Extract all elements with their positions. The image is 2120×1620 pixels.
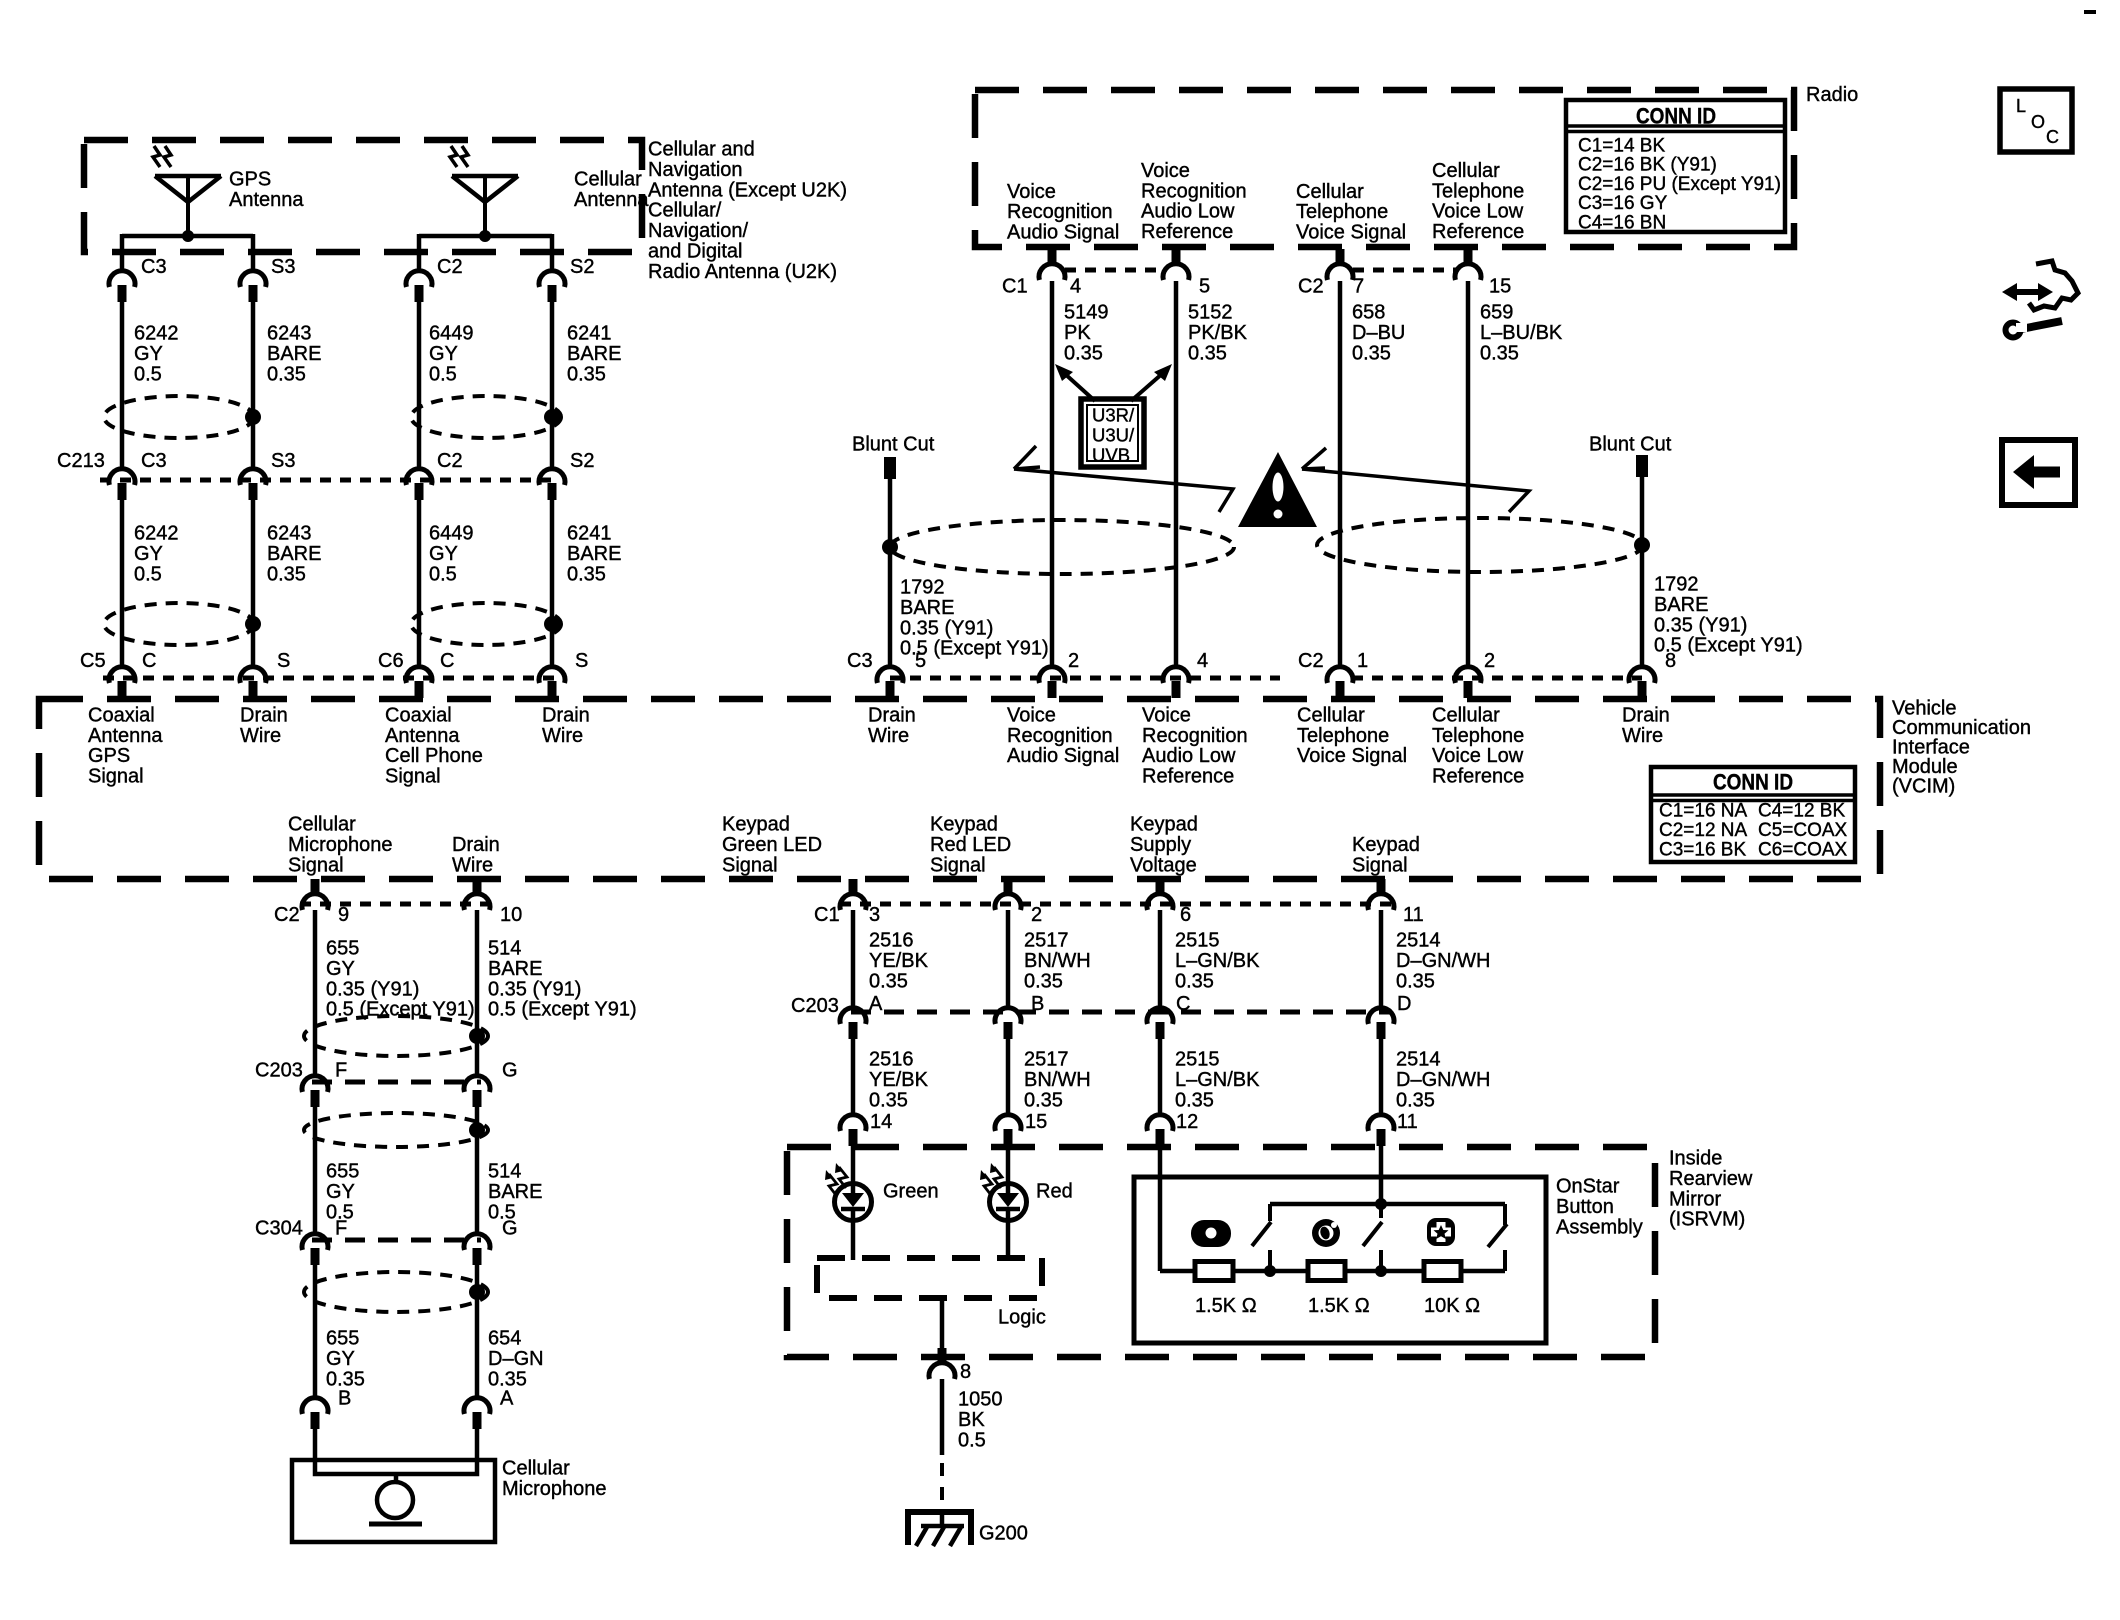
svg-text:BARE: BARE [488,958,542,980]
svg-text:Red LED: Red LED [930,834,1011,856]
VCIM pin C2-1 [1298,650,1368,698]
svg-text:0.35: 0.35 [1024,970,1063,992]
radio pin C2-7 [1298,249,1364,298]
svg-text:S2: S2 [570,256,594,278]
label Cellular Telephone Voice Signal (VCIM) [1297,705,1407,768]
junction dot resistor bus 2 [1375,1265,1387,1277]
connector pin G (C203) [464,1060,518,1108]
svg-text:C203: C203 [255,1060,303,1082]
shield ellipse mic 3 [304,1272,488,1312]
svg-text:7: 7 [1353,276,1364,298]
wire mic A lead [475,1428,480,1462]
junction dot signal bus [1375,1198,1387,1210]
svg-text:Cellular: Cellular [502,1458,570,1480]
button icon emergency cross [1427,1218,1455,1246]
label Drain Wire (C5) [240,705,288,747]
svg-text:0.35: 0.35 [1188,342,1227,364]
svg-text:C2: C2 [1298,276,1324,298]
svg-text:C6: C6 [378,650,404,672]
svg-text:Cellular: Cellular [1297,705,1365,727]
svg-text:1792: 1792 [1654,574,1699,596]
svg-text:L–GN/BK: L–GN/BK [1175,1069,1260,1091]
label C304 [255,1218,303,1240]
junction dot mic shield 1 [469,1028,485,1044]
wire 2517 BN/WH segment 1 [1006,910,1011,1010]
svg-text:GY: GY [326,1348,355,1370]
wire 6242 GY segment 1 [120,301,125,471]
svg-text:5149: 5149 [1064,302,1109,324]
wire green LED to logic [851,1221,856,1260]
wire 1792 BARE (left) [888,479,893,668]
svg-text:D–GN/WH: D–GN/WH [1396,950,1490,972]
wire 6242 GY segment 2 [120,499,125,668]
wire 658 D-BU [1338,281,1343,668]
label Keypad Supply Voltage [1130,814,1198,877]
connector pin S2 (C213) [539,450,594,500]
connector pin D (C203) [1368,993,1411,1039]
label Keypad Signal [1352,834,1420,876]
svg-text:Telephone: Telephone [1432,180,1524,202]
svg-text:1.5K Ω: 1.5K Ω [1195,1295,1257,1317]
svg-text:0.35 (Y91): 0.35 (Y91) [488,978,581,1000]
resistor R1 1.5K [1195,1262,1233,1281]
svg-text:GY: GY [134,543,163,565]
svg-text:0.35: 0.35 [267,563,306,585]
svg-text:A: A [500,1388,514,1410]
svg-text:L–GN/BK: L–GN/BK [1175,950,1260,972]
svg-text:514: 514 [488,1161,521,1183]
svg-text:L: L [2016,96,2026,116]
svg-text:Wire: Wire [452,854,493,876]
svg-text:655: 655 [326,1328,359,1350]
wire label 2517 BN/WH (lower) [1024,1049,1091,1112]
wire label 514 BARE 0.5 [488,1161,542,1224]
svg-text:Drain: Drain [240,705,288,727]
svg-text:G: G [502,1060,518,1082]
svg-text:D–BU: D–BU [1352,322,1405,344]
junction dot resistor bus 1 [1264,1265,1276,1277]
VCIM pin 4 [1163,650,1208,698]
svg-text:BK: BK [958,1409,985,1431]
svg-text:Button: Button [1556,1196,1614,1218]
wire keypad signal into assembly [1379,1144,1384,1204]
svg-text:0.35: 0.35 [1175,970,1214,992]
label Cellular Telephone Voice Low Reference (VCIM) [1432,705,1524,788]
junction dot shield-drain S2 upper [544,409,560,425]
svg-text:S3: S3 [271,450,295,472]
svg-text:15: 15 [1489,276,1511,298]
svg-text:Voice Low: Voice Low [1432,745,1524,767]
junction dot blunt left [882,539,898,555]
label C6 [378,650,404,672]
svg-text:Recognition: Recognition [1007,201,1113,223]
svg-text:6243: 6243 [267,323,312,345]
wire label 2515 L-GN/BK (upper) [1175,930,1260,993]
OnStar Button Assembly box [1134,1177,1546,1343]
svg-text:514: 514 [488,938,521,960]
svg-text:Voice: Voice [1142,705,1191,727]
label Logic [998,1307,1046,1329]
svg-text:0.35 (Y91): 0.35 (Y91) [326,978,419,1000]
label Green [883,1181,939,1203]
svg-text:4: 4 [1197,650,1208,672]
svg-text:Recognition: Recognition [1007,725,1113,747]
wire 2514 D-GN/WH segment 2 [1379,1038,1384,1117]
svg-text:Wire: Wire [868,725,909,747]
wire label 2515 L-GN/BK (lower) [1175,1049,1260,1112]
svg-text:BN/WH: BN/WH [1024,950,1091,972]
svg-text:Navigation/: Navigation/ [648,220,749,242]
svg-text:C1: C1 [1002,276,1028,298]
svg-text:GY: GY [326,1181,355,1203]
Logic dashed box [817,1258,1042,1298]
label Cellular Telephone Voice Signal (radio) [1296,181,1406,244]
label Cellular Antenna [574,169,649,211]
wire 6449 GY segment 1 [417,301,422,471]
svg-text:6242: 6242 [134,323,179,345]
ISRVM pin 14 [840,1111,892,1146]
wire label 6243 BARE 0.35 (upper) [267,323,321,386]
svg-text:GY: GY [134,343,163,365]
svg-text:654: 654 [488,1328,521,1350]
label Coaxial Antenna GPS Signal [88,705,163,788]
svg-text:U3U/: U3U/ [1092,424,1135,445]
junction dot mic shield 2 [469,1122,485,1138]
wire label 659 L-BU/BK 0.35 [1480,302,1563,365]
label OnStar Button Assembly [1556,1176,1643,1239]
VCIM pin C3-5 drain [847,650,926,698]
svg-text:659: 659 [1480,302,1513,324]
svg-text:0.35: 0.35 [1480,342,1519,364]
svg-text:Blunt Cut: Blunt Cut [852,434,935,456]
label Voice Recognition Audio Signal (VCIM) [1007,705,1119,768]
shield ellipse radio right pair [1317,518,1643,572]
VCIM CONN ID table [1651,767,1855,862]
svg-text:Drain: Drain [868,705,916,727]
svg-text:Keypad: Keypad [930,814,998,836]
RPO arrow to wire 5152 [1131,364,1172,401]
svg-text:14: 14 [870,1111,892,1133]
svg-text:L–BU/BK: L–BU/BK [1480,322,1563,344]
svg-text:0.5 (Except Y91): 0.5 (Except Y91) [488,999,637,1021]
svg-text:Audio Signal: Audio Signal [1007,222,1119,244]
wire label 2516 YE/BK (upper) [869,930,929,993]
button icon phone [1191,1220,1231,1247]
ISRVM pin 11 [1368,1111,1418,1146]
VCIM pin 2 red [995,879,1042,926]
pointer zigzag left [1014,446,1233,512]
svg-text:0.35: 0.35 [1396,1089,1435,1111]
wire label 514 BARE (Y91) [488,938,637,1021]
svg-text:Antenna (Except U2K): Antenna (Except U2K) [648,179,847,201]
connector C203 dashed line (mic) [312,1080,481,1085]
svg-text:1050: 1050 [958,1389,1003,1411]
svg-text:C2: C2 [1298,650,1324,672]
wire 5149 PK [1050,281,1055,668]
svg-text:GY: GY [429,543,458,565]
svg-text:Cellular: Cellular [574,169,642,191]
VCIM bottom connector C1 dotted line (keypad) [840,902,1392,907]
wire label 2514 D-GN/WH (lower) [1396,1049,1490,1112]
connector pin B (C203) [995,993,1044,1039]
label C5 [80,650,106,672]
svg-text:GPS: GPS [229,169,271,191]
svg-text:YE/BK: YE/BK [869,1069,929,1091]
svg-text:C5: C5 [80,650,106,672]
label antenna assembly name [648,139,847,283]
svg-text:F: F [335,1060,347,1082]
svg-text:Telephone: Telephone [1432,725,1524,747]
svg-text:D: D [1397,993,1411,1015]
Cellular Microphone box [292,1460,495,1542]
svg-text:Audio Low: Audio Low [1142,745,1236,767]
svg-text:C1: C1 [814,904,840,926]
svg-text:BARE: BARE [267,543,321,565]
VCIM pin 2 (voice low) [1455,650,1495,698]
label Cellular Telephone Voice Low Reference (radio) [1432,160,1524,243]
svg-text:A: A [869,993,883,1015]
wire 655 GY segment 3 [313,1264,318,1400]
svg-text:Inside: Inside [1669,1148,1722,1170]
svg-text:Antenna: Antenna [229,189,304,211]
shield ellipse GPS pair upper [104,396,254,438]
svg-text:0.5: 0.5 [134,563,162,585]
VCIM bottom connector C2 dotted line (mic) [300,902,490,907]
junction dot shield-drain S3 upper [245,409,261,425]
svg-text:GY: GY [429,343,458,365]
svg-text:Drain: Drain [1622,705,1670,727]
svg-text:Signal: Signal [722,854,778,876]
LED red indicator [980,1163,1027,1221]
svg-text:15: 15 [1025,1111,1047,1133]
ISRVM pin 12 [1147,1111,1198,1146]
svg-text:8: 8 [960,1361,971,1383]
svg-text:Drain: Drain [542,705,590,727]
connector pin A (mic) [464,1388,514,1430]
svg-text:G: G [502,1218,518,1240]
Radio CONN ID table [1566,100,1785,234]
svg-text:Keypad: Keypad [1130,814,1198,836]
svg-text:U3R/: U3R/ [1092,404,1135,425]
radio connector C1 dotted line [1065,268,1164,273]
svg-text:Voice: Voice [1007,705,1056,727]
svg-text:Radio: Radio [1806,84,1858,106]
svg-text:5152: 5152 [1188,302,1233,324]
svg-text:C2: C2 [437,450,463,472]
label Inside Rearview Mirror (ISRVM) [1669,1148,1753,1231]
wire label 6242 GY 0.5 (lower) [134,523,179,586]
svg-text:Navigation: Navigation [648,159,743,181]
connector C304 dashed line [312,1238,481,1243]
blunt cut stub (right) [1589,434,1672,478]
service icon (arrows and wrench) [2002,261,2078,338]
svg-text:UVB: UVB [1092,444,1130,465]
resistor R2 1.5K [1308,1262,1345,1281]
label Cellular Microphone [502,1458,607,1500]
LOC icon box [2000,89,2072,152]
shield ellipse mic 2 [304,1113,488,1147]
svg-text:Signal: Signal [930,854,986,876]
wire mic B lead [313,1428,318,1462]
wire label 2517 BN/WH (upper) [1024,930,1091,993]
svg-text:C3: C3 [141,450,167,472]
VCIM pin 11 signal [1368,879,1424,926]
label C203 (mic) [255,1060,303,1082]
svg-text:5: 5 [915,650,926,672]
shield ellipse mic 1 [304,1016,488,1056]
svg-text:S: S [575,650,588,672]
wire label 6243 BARE 0.35 (lower) [267,523,321,586]
connector pin S3 (antenna) [240,256,295,302]
svg-text:BARE: BARE [267,343,321,365]
svg-text:Wire: Wire [542,725,583,747]
svg-text:O: O [2031,112,2045,132]
svg-text:Drain: Drain [452,834,500,856]
svg-text:1: 1 [1357,650,1368,672]
antenna assembly dashed box (Cellular and Navigation Antenna) [84,140,642,252]
svg-text:Keypad: Keypad [1352,834,1420,856]
svg-text:1792: 1792 [900,577,945,599]
svg-text:Reference: Reference [1432,765,1524,787]
VCIM connector C3 dotted line [890,676,1280,681]
wire cell drain drop S2 [550,234,555,273]
wire red LED lead [1006,1144,1011,1184]
svg-text:Wire: Wire [240,725,281,747]
warning triangle [1238,452,1317,527]
label Vehicle Communication Interface Module (VCIM) [1892,698,2031,798]
svg-text:Cell Phone: Cell Phone [385,745,483,767]
svg-text:Rearview: Rearview [1669,1168,1753,1190]
svg-text:0.35: 0.35 [567,563,606,585]
svg-text:0.5: 0.5 [134,363,162,385]
wire 6243 BARE segment 2 [251,499,256,668]
label Cellular Microphone Signal [288,814,393,877]
resistor R3 10K [1424,1262,1461,1281]
svg-text:Telephone: Telephone [1296,201,1388,223]
svg-text:0.5: 0.5 [429,363,457,385]
label 10K ohm (R3) [1424,1295,1480,1317]
VCIM dashed box [39,699,1880,879]
wire 6449 GY segment 2 [417,499,422,668]
svg-text:Voice Signal: Voice Signal [1297,745,1407,767]
svg-text:PK/BK: PK/BK [1188,322,1248,344]
label Keypad Red LED Signal [930,814,1011,877]
svg-text:Voice Signal: Voice Signal [1296,222,1406,244]
svg-text:Signal: Signal [385,765,441,787]
label 1.5K ohm (R2) [1308,1295,1370,1317]
svg-text:Green: Green [883,1181,939,1203]
svg-text:Reference: Reference [1141,221,1233,243]
svg-text:0.35: 0.35 [869,1089,908,1111]
junction dot shield-drain S3 lower [245,616,261,632]
label Radio [1806,84,1858,106]
svg-text:G200: G200 [979,1523,1028,1545]
svg-text:C6=COAX: C6=COAX [1758,839,1848,860]
svg-text:Cellular: Cellular [288,814,356,836]
connector pin S3 (C213) [240,450,295,500]
svg-text:Audio Signal: Audio Signal [1007,745,1119,767]
svg-text:CONN ID: CONN ID [1636,103,1716,128]
shield ellipse cell pair upper [411,396,561,438]
page mark [2084,10,2096,14]
wire label 655 GY 0.5 [326,1161,359,1224]
svg-text:655: 655 [326,938,359,960]
wire 2515 L-GN/BK segment 1 [1158,910,1163,1010]
svg-text:Antenna: Antenna [574,189,649,211]
svg-text:0.35: 0.35 [869,970,908,992]
svg-text:Recognition: Recognition [1142,725,1248,747]
svg-text:GPS: GPS [88,745,130,767]
svg-text:Mirror: Mirror [1669,1188,1722,1210]
svg-text:D–GN: D–GN [488,1348,544,1370]
wire cell coax drop C2 [417,234,422,273]
wire red LED to logic [1006,1221,1011,1260]
wire 6241 BARE segment 2 [550,499,555,668]
wire 1050 BK dashed to ground [940,1463,944,1506]
svg-text:C2=12 NA: C2=12 NA [1659,820,1748,841]
wire 2515 L-GN/BK segment 2 [1158,1038,1163,1117]
radio pin C1-4 [1002,249,1081,298]
svg-text:2515: 2515 [1175,930,1220,952]
svg-text:Cellular and: Cellular and [648,139,755,161]
svg-text:D–GN/WH: D–GN/WH [1396,1069,1490,1091]
svg-text:Green LED: Green LED [722,834,822,856]
VCIM pin C2-9 mic [274,879,349,926]
svg-text:0.5: 0.5 [429,563,457,585]
svg-text:2516: 2516 [869,1049,914,1071]
label Voice Recognition Audio Signal (radio) [1007,181,1119,244]
svg-text:8: 8 [1665,650,1676,672]
svg-text:C1=14 BK: C1=14 BK [1578,135,1665,156]
wire logic to pin 8 [940,1298,945,1349]
svg-text:C: C [2046,127,2059,147]
svg-text:BARE: BARE [1654,594,1708,616]
back arrow icon box [2002,440,2075,505]
svg-text:3: 3 [869,904,880,926]
connector pin A (C203) [840,993,883,1039]
connector C213 dotted line [100,478,560,483]
wire label 6241 BARE 0.35 (lower) [567,523,621,586]
svg-text:C213: C213 [57,450,105,472]
GPS antenna A1 [153,146,221,236]
svg-text:6243: 6243 [267,523,312,545]
wire 514 BARE segment 1 [475,910,480,1078]
svg-text:(VCIM): (VCIM) [1892,776,1955,798]
wire label 655 GY (Y91) [326,938,475,1021]
svg-text:C3: C3 [141,256,167,278]
svg-text:C2=16 BK (Y91): C2=16 BK (Y91) [1578,155,1717,176]
svg-text:0.35: 0.35 [567,363,606,385]
wire 654 D-GN segment 3 [475,1264,480,1400]
wire label 2514 D-GN/WH (upper) [1396,930,1490,993]
svg-text:B: B [1031,993,1044,1015]
wire 6243 BARE segment 1 [251,301,256,471]
wire label 1792 BARE (right) [1654,574,1803,657]
svg-text:2516: 2516 [869,930,914,952]
wire 5152 PK/BK [1174,281,1179,668]
svg-text:Red: Red [1036,1181,1073,1203]
svg-text:0.35 (Y91): 0.35 (Y91) [900,617,993,639]
connector pin G (C304) [464,1218,518,1266]
connector pin B (mic) [302,1388,351,1430]
label C203 (keypad) [791,995,839,1017]
svg-text:0.35: 0.35 [1396,970,1435,992]
RPO callout box U3R/U3U/UVB [1081,399,1144,467]
wire label 6241 BARE 0.35 (upper) [567,323,621,386]
svg-text:10: 10 [500,904,522,926]
wire cellular antenna to coax [419,234,552,239]
VCIM pin 8 drain [1629,650,1676,698]
